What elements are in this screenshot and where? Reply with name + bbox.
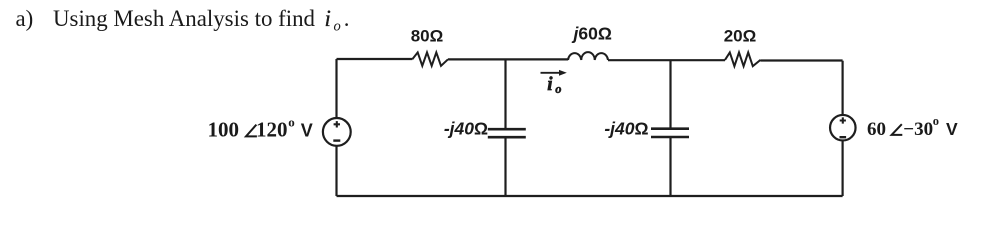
svg-text:i: i [547, 74, 553, 95]
svg-text:o: o [288, 114, 295, 129]
svg-text:i: i [325, 6, 331, 31]
svg-text:120: 120 [256, 117, 288, 141]
svg-text:Using Mesh Analysis to find: Using Mesh Analysis to find [53, 6, 316, 31]
svg-text:−30: −30 [903, 119, 933, 140]
svg-text:100: 100 [208, 117, 240, 141]
svg-text:j60Ω: j60Ω [572, 24, 612, 44]
svg-text:V: V [946, 119, 958, 139]
svg-text:o: o [555, 82, 561, 96]
svg-text:-j40Ω: -j40Ω [604, 119, 648, 139]
svg-text:-j40Ω: -j40Ω [444, 119, 488, 139]
svg-text:60: 60 [867, 119, 886, 140]
svg-text:o: o [933, 114, 939, 128]
svg-text:V: V [301, 120, 313, 140]
svg-text:20Ω: 20Ω [724, 27, 757, 46]
svg-text:80Ω: 80Ω [411, 26, 444, 45]
svg-text:.: . [344, 6, 350, 31]
svg-text:a): a) [16, 6, 34, 31]
svg-text:o: o [334, 18, 341, 34]
